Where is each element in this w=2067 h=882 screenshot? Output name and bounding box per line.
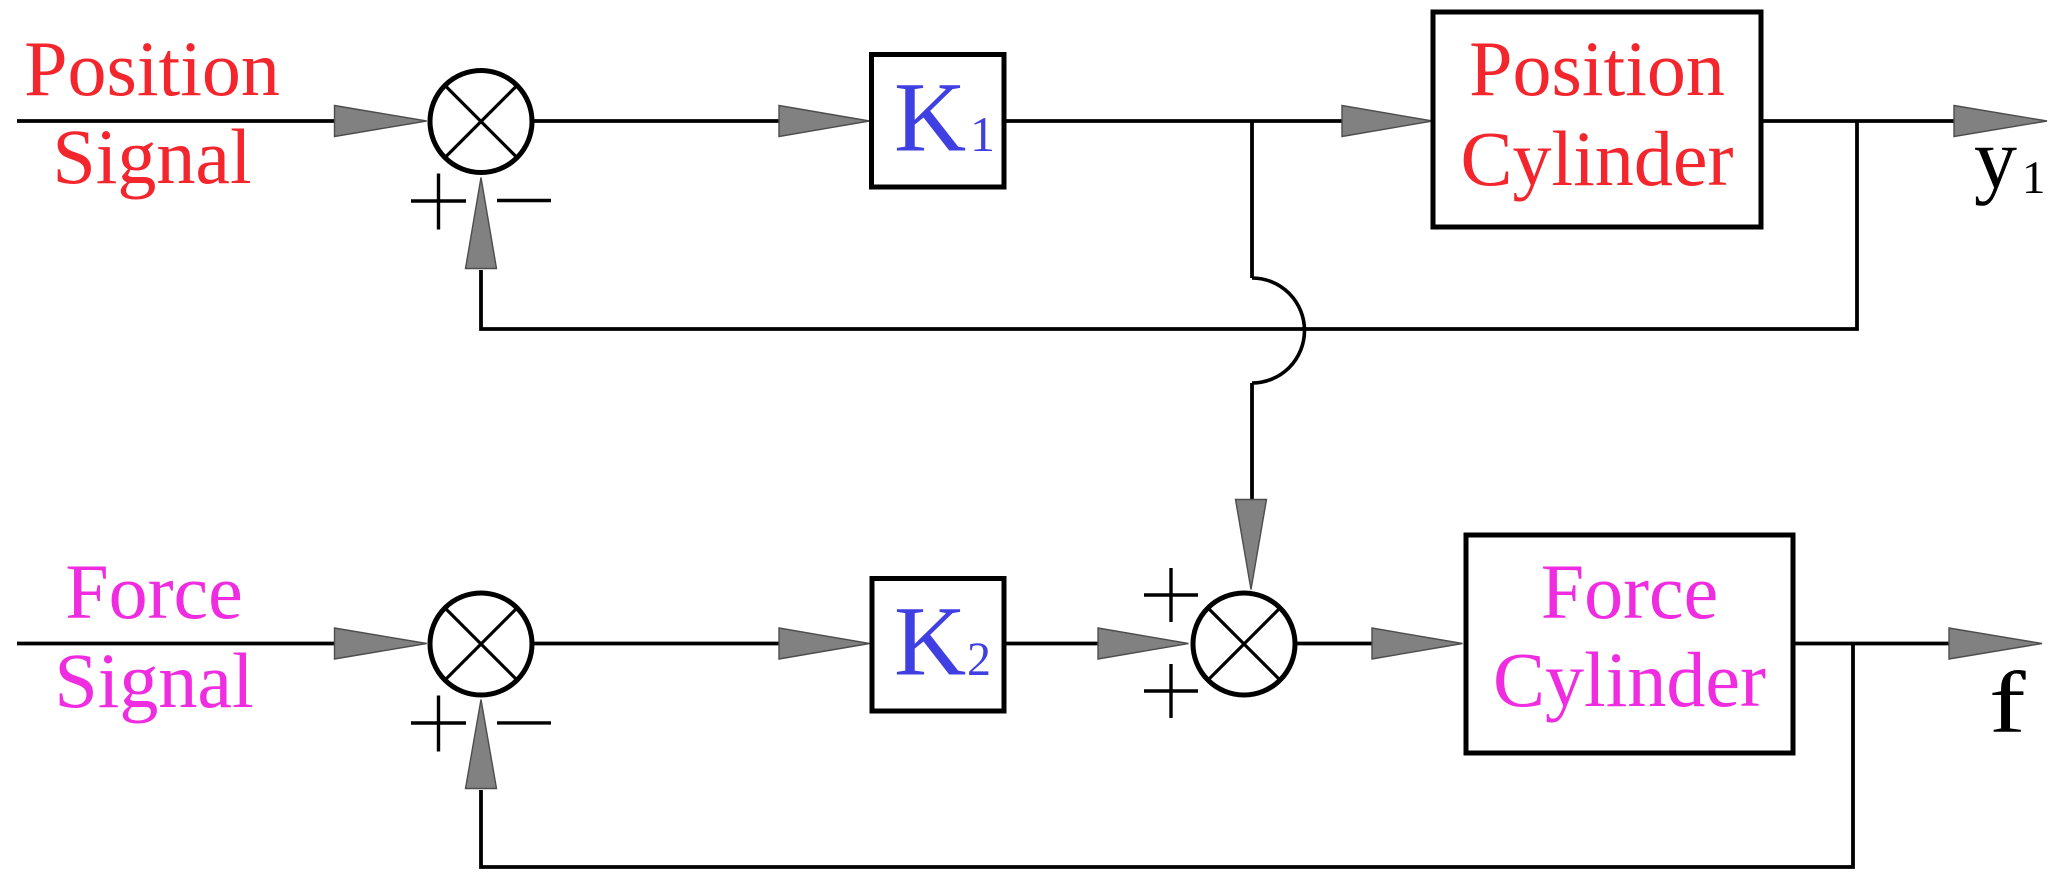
wire S2 to K2 — [531, 642, 781, 646]
svg-text:Position: Position — [1469, 25, 1725, 112]
svg-text:2: 2 — [967, 633, 991, 686]
svg-text:K: K — [894, 62, 966, 173]
svg-text:K: K — [894, 586, 966, 697]
summing junction S3 — [1193, 593, 1295, 695]
arrowhead output y1 — [1954, 106, 2047, 137]
arrowhead into Position Cylinder — [1342, 106, 1433, 137]
wire cross-feed upper (node to bridge) — [1250, 121, 1254, 278]
arrowhead feedback into S1 — [466, 178, 497, 269]
block Force Cylinder — [1466, 535, 1793, 753]
arrowhead force input — [335, 628, 427, 659]
arrowhead cross-feed into S3 — [1236, 500, 1267, 590]
arrowhead into K2 — [779, 628, 870, 659]
gain block K2 — [872, 579, 1004, 712]
wire position input — [17, 119, 336, 123]
wire cross-feed lower (bridge to S3) — [1250, 383, 1254, 501]
svg-text:Force: Force — [1541, 548, 1719, 635]
plus sign S1 — [411, 174, 466, 230]
arrowhead into Force Cylinder — [1372, 628, 1463, 659]
plus sign S3 upper — [1144, 568, 1198, 622]
wire K2 to S3 — [1004, 642, 1100, 646]
svg-text:Cylinder: Cylinder — [1493, 636, 1766, 723]
label Force Signal — [54, 548, 253, 724]
label y1 — [1974, 110, 2046, 206]
svg-text:1: 1 — [2022, 152, 2046, 204]
minus sign S1 — [497, 199, 551, 202]
svg-text:Force: Force — [65, 548, 243, 635]
svg-text:1: 1 — [970, 106, 995, 162]
svg-text:f: f — [1989, 653, 2027, 751]
svg-text:Cylinder: Cylinder — [1461, 115, 1734, 202]
wire S3 to Force Cylinder — [1294, 642, 1374, 646]
wire K1 to Position Cylinder — [1004, 119, 1344, 123]
wire S1 to K1 — [531, 119, 781, 123]
plus sign S2 — [411, 696, 466, 752]
label Position Signal — [24, 25, 280, 200]
svg-text:Signal: Signal — [54, 637, 253, 724]
arrowhead into S3 — [1098, 628, 1188, 659]
wire position feedback (node to S1) — [481, 121, 1857, 329]
minus sign S2 — [497, 721, 551, 724]
arrowhead position input — [335, 106, 427, 137]
wire Force Cylinder to output — [1793, 642, 1951, 646]
summing junction S2 — [430, 593, 532, 695]
arrowhead into K1 — [779, 106, 870, 137]
summing junction S1 — [430, 71, 532, 173]
svg-text:Signal: Signal — [52, 113, 251, 200]
wire Position Cylinder to output — [1761, 119, 1956, 123]
arrowhead feedback into S2 — [466, 700, 497, 789]
svg-text:Position: Position — [24, 25, 280, 112]
svg-text:y: y — [1974, 110, 2017, 206]
gain block K1 — [872, 55, 1005, 188]
bridge hop over feedback wire — [1252, 278, 1305, 383]
wire force feedback (node to S2) — [481, 644, 1853, 868]
wire force input — [17, 642, 336, 646]
block Position Cylinder — [1433, 12, 1761, 227]
plus sign S3 lower — [1144, 664, 1198, 718]
arrowhead output f — [1949, 628, 2042, 659]
